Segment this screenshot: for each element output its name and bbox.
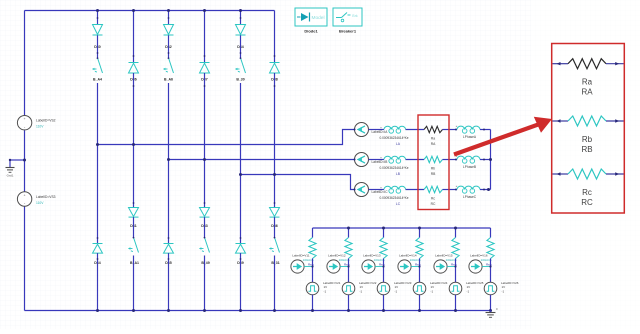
resistor Rb2: [345, 238, 352, 259]
resistor Rb4: [416, 238, 423, 259]
wire column 3 upper: [168, 11, 170, 25]
wire stub right Rb: [606, 120, 624, 122]
annotation small red box: [418, 115, 449, 210]
wire bottom bus: [25, 310, 491, 312]
pulse source V21: [306, 282, 319, 295]
svg-text:Breaker1: Breaker1: [339, 29, 357, 34]
resistor Rb3: [380, 238, 387, 259]
wire column 2 mid2: [133, 217, 135, 237]
diode D40: [93, 25, 103, 35]
svg-text:LabelID=IB: LabelID=IB: [372, 160, 388, 164]
wire phase A tap: [98, 130, 355, 145]
diode D41: [129, 208, 139, 217]
wire bank branch 4 lower: [419, 295, 421, 311]
wire bank branch 4 upper: [419, 228, 421, 238]
svg-text:LabelID=IC: LabelID=IC: [372, 190, 389, 194]
svg-text:+: +: [380, 156, 382, 160]
wire row IC d: [480, 189, 491, 191]
svg-text:0.000936234614*Ke: 0.000936234614*Ke: [379, 196, 408, 200]
svg-text:LabelID=V15: LabelID=V15: [435, 253, 453, 257]
svg-text:LabelID=VS2: LabelID=VS2: [36, 119, 56, 123]
resistor Rb6: [487, 238, 494, 259]
wire phase C tap: [241, 175, 355, 190]
svg-text:RB: RB: [581, 145, 592, 154]
wire column 4 long: [204, 73, 206, 208]
flow arrow V15: [434, 260, 447, 273]
wire row IB c: [443, 159, 458, 161]
resistor Ra: [424, 126, 442, 132]
resistor RC (zoomed): [568, 169, 606, 179]
inductor LPhaseC: [457, 186, 480, 189]
svg-text:RA: RA: [581, 88, 593, 97]
svg-text:LabelID=V26: LabelID=V26: [501, 281, 519, 285]
breaker B_31: [275, 238, 280, 253]
svg-text:Rb: Rb: [431, 167, 435, 171]
node output junctions: [489, 158, 492, 161]
svg-text:0.000936234614*Ke: 0.000936234614*Ke: [379, 136, 408, 140]
wire column 3 long: [168, 83, 170, 244]
wire phase B tap: [169, 159, 355, 161]
diode D46: [270, 208, 280, 217]
breaker B_A4: [98, 59, 103, 74]
svg-text:RB: RB: [431, 172, 436, 176]
wire column 2 upper: [133, 11, 135, 63]
wire top bus: [25, 10, 275, 12]
wire bank top rail: [313, 227, 491, 229]
svg-text:LabelID=V16: LabelID=V16: [470, 253, 488, 257]
wire column 6 mid2: [274, 217, 276, 237]
wire row IC a: [369, 189, 385, 191]
wire bank branch 3 mid: [383, 259, 385, 283]
inductor LB: [384, 156, 406, 159]
node phase C junctions: [239, 173, 242, 176]
wire row IA a: [369, 129, 385, 131]
svg-text:+: +: [380, 126, 382, 130]
svg-text:LabelID=IA: LabelID=IA: [372, 130, 389, 134]
wire row IC c: [443, 189, 458, 191]
svg-text:LabelID=VS3: LabelID=VS3: [36, 195, 56, 199]
node phase B junctions: [167, 158, 170, 161]
svg-text:RA: RA: [431, 142, 436, 146]
ground right: [490, 311, 492, 313]
wire column 1 mid1: [97, 35, 99, 57]
voltage source VS3: [17, 192, 31, 206]
ammeter IC: [355, 183, 369, 197]
wire column 1 long: [97, 83, 99, 244]
wire phase output bus: [490, 130, 492, 190]
diode D34: [93, 243, 103, 245]
svg-text:B_31: B_31: [271, 261, 279, 265]
svg-text:Rb: Rb: [582, 135, 593, 144]
svg-text:LabelID=V23: LabelID=V23: [394, 281, 412, 285]
svg-text:LPhaseC: LPhaseC: [463, 195, 477, 199]
breaker B_30: [241, 59, 246, 74]
svg-text:LabelID=V13: LabelID=V13: [363, 253, 381, 257]
wire column 6 long: [274, 73, 276, 208]
block Breaker1: [333, 8, 362, 26]
wire left source branch: [24, 11, 26, 116]
ammeter IA: [355, 123, 369, 137]
wire bank branch 5 mid: [455, 259, 457, 283]
resistor RA (zoomed): [568, 59, 606, 69]
wire bank branch 5 lower: [455, 295, 457, 311]
wire row IB a: [369, 159, 385, 161]
wire bank branch 6 lower: [490, 295, 492, 311]
ammeter IB: [355, 153, 369, 167]
inductor LPhaseB: [457, 156, 480, 159]
flow arrow V14: [398, 260, 411, 273]
wire row IB d: [480, 159, 491, 161]
wire stub right Ra: [606, 63, 624, 65]
svg-text:LPhaseB: LPhaseB: [463, 165, 476, 169]
svg-text:+: +: [380, 186, 382, 190]
svg-text:RC: RC: [581, 198, 593, 207]
wire column 6 upper: [274, 11, 276, 63]
svg-text:Diode1: Diode1: [304, 29, 318, 34]
diode D35: [164, 243, 174, 245]
svg-text:Model: Model: [311, 15, 324, 21]
wire row IA c: [443, 129, 458, 131]
wire column 3 lower: [168, 253, 170, 310]
svg-text:Gnd1: Gnd1: [7, 174, 14, 178]
flow arrow V16: [469, 260, 482, 273]
wire column 5 upper: [240, 11, 242, 25]
inductor LA: [384, 126, 406, 129]
wire row IA d: [480, 129, 491, 131]
wire bank branch 3 lower: [383, 295, 385, 311]
wire bank branch 5 upper: [455, 228, 457, 238]
node phase A junctions: [96, 143, 99, 146]
svg-text:Rc: Rc: [582, 188, 592, 197]
svg-text:LabelID=V14: LabelID=V14: [399, 253, 417, 257]
resistor Rc: [424, 186, 442, 192]
pulse source V24: [413, 282, 426, 295]
resistor Rb5: [452, 238, 459, 259]
wire stub left Rc: [553, 173, 569, 175]
wire row IA b: [406, 129, 424, 131]
wire bank branch 6 upper: [490, 228, 492, 238]
block Diode1: [295, 8, 327, 26]
svg-text:B_A4: B_A4: [93, 78, 102, 82]
wire bank branch 3 upper: [383, 228, 385, 238]
diode D36: [129, 62, 139, 64]
svg-text:-1: -1: [502, 289, 505, 293]
wire row IC b: [406, 189, 424, 191]
annotation big red box: [552, 44, 625, 214]
svg-text:Ra: Ra: [582, 78, 593, 87]
svg-text:RC: RC: [431, 202, 436, 206]
svg-text:-1: -1: [395, 289, 398, 293]
inductor LPhaseA: [457, 126, 480, 129]
diode D42: [164, 25, 174, 35]
svg-text:B_A6: B_A6: [164, 78, 173, 82]
wire ground stub: [10, 159, 25, 161]
wire column 2 long: [133, 73, 135, 208]
svg-text:-1: -1: [360, 289, 363, 293]
pulse source V23: [377, 282, 390, 295]
breaker B_49: [205, 238, 210, 253]
svg-text:Brk: Brk: [352, 14, 358, 18]
svg-text:LabelID=V24: LabelID=V24: [430, 281, 448, 285]
resistor Rb: [424, 156, 442, 162]
wire bank branch 2 upper: [348, 228, 350, 238]
flow arrow V13: [362, 260, 375, 273]
wire column 1 lower: [97, 253, 99, 310]
diode D43: [200, 208, 210, 217]
breaker B_A6: [169, 59, 174, 74]
wire column 1 upper: [97, 11, 99, 25]
wire bank branch 1 lower: [312, 295, 314, 311]
pulse source V25: [449, 282, 462, 295]
svg-text:LabelID=V12: LabelID=V12: [328, 253, 346, 257]
svg-text:110V: 110V: [36, 201, 44, 205]
flow arrow V11: [291, 260, 304, 273]
svg-text:+: +: [24, 193, 26, 197]
diode D38: [270, 62, 280, 64]
wire bank branch 6 mid: [490, 259, 492, 283]
breaker B_A1: [134, 238, 139, 253]
ground left: [6, 167, 15, 169]
svg-text:B_A1: B_A1: [130, 261, 139, 265]
wire stub right Rc: [606, 173, 624, 175]
svg-text:B_30: B_30: [236, 78, 244, 82]
voltage source VS2: [17, 116, 31, 130]
svg-text:-1: -1: [324, 289, 327, 293]
resistor Rb1: [309, 238, 316, 259]
wire bank branch 2 lower: [348, 295, 350, 311]
wire row IB b: [406, 159, 424, 161]
svg-text:B_49: B_49: [201, 261, 209, 265]
svg-text:LabelID=V22: LabelID=V22: [359, 281, 377, 285]
wire column 4 upper: [204, 11, 206, 63]
diode D37: [200, 62, 210, 64]
flow arrow V12: [327, 260, 340, 273]
wire stub left Rb: [553, 120, 569, 122]
wire stub left Ra: [553, 63, 569, 65]
svg-text:0.000936234614*Ke: 0.000936234614*Ke: [379, 166, 408, 170]
svg-text:-1: -1: [467, 289, 470, 293]
svg-text:+: +: [24, 117, 26, 121]
inductor LC: [384, 186, 406, 189]
wire bank branch 4 mid: [419, 259, 421, 283]
svg-text:LC: LC: [396, 202, 401, 206]
wire bank branch 1 mid: [312, 259, 314, 283]
wire column 6 lower: [274, 256, 276, 311]
diode D39: [236, 243, 246, 245]
wire column 5 mid1: [240, 35, 242, 57]
pulse source V22: [342, 282, 355, 295]
svg-text:-1: -1: [431, 289, 434, 293]
svg-text:Rc: Rc: [431, 197, 435, 201]
wire column 4 mid2: [204, 217, 206, 237]
wire column 5 long: [240, 83, 242, 244]
wire bank branch 1 upper: [312, 228, 314, 238]
node left-junction: [23, 159, 26, 162]
wire column 4 lower: [204, 256, 206, 311]
wire column 5 lower: [240, 253, 242, 310]
svg-text:LabelID=V25: LabelID=V25: [466, 281, 484, 285]
annotation red arrow: [454, 124, 541, 155]
resistor RB (zoomed): [568, 116, 606, 126]
svg-text:110V: 110V: [36, 125, 44, 129]
svg-text:Ra: Ra: [431, 137, 435, 141]
svg-text:LabelID=V11: LabelID=V11: [292, 253, 310, 257]
diode D44: [236, 25, 246, 35]
wire column 2 lower: [133, 256, 135, 311]
svg-text:LabelID=V21: LabelID=V21: [323, 281, 341, 285]
wire bank branch 2 mid: [348, 259, 350, 283]
wire column 3 mid1: [168, 35, 170, 57]
pulse source V26: [484, 282, 497, 295]
svg-text:LPhaseA: LPhaseA: [463, 135, 477, 139]
